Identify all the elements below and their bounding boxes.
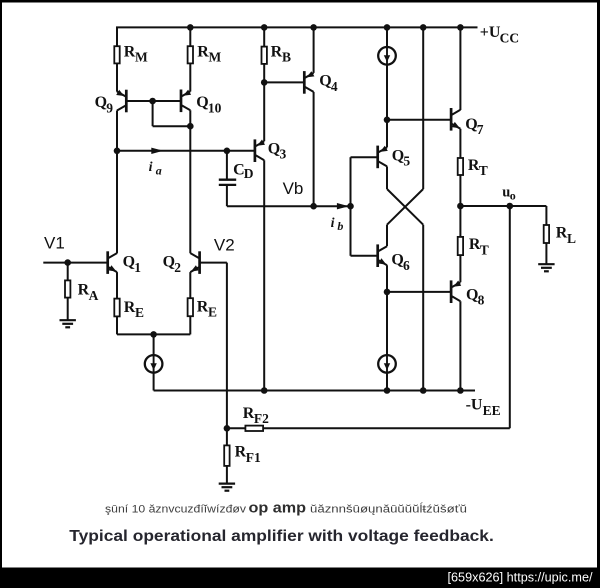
wire uo node to RT2: [459, 206, 461, 237]
wire Q1 collector up to node ia: [116, 151, 118, 254]
node uo feedback junction: [507, 203, 514, 210]
wire I3 to -UEE corner: [153, 373, 155, 391]
node current source I1 on rail: [384, 24, 391, 31]
wire Vb line to ib node: [227, 205, 351, 207]
node cross column on +UCC rail: [420, 24, 427, 31]
svg-text:R: R: [197, 298, 209, 315]
wire I1 to Q5 emitter node: [386, 64, 388, 119]
wire RF1 to ground: [226, 466, 228, 483]
svg-text:EE: EE: [483, 403, 501, 418]
svg-text:ŭăznnšūøųnăūŭŭŭĺŧźŭšøťŭ: ŭăznnšūøųnăūŭŭŭĺŧźŭšøťŭ: [310, 502, 467, 515]
wire Q4 base line: [264, 81, 303, 83]
svg-text:o: o: [510, 189, 516, 203]
ground below RL: [538, 263, 554, 265]
svg-text:Q: Q: [319, 73, 331, 90]
wire ib node down to Q6 base: [350, 206, 352, 256]
wire Q5 collector to cross top-left: [386, 166, 388, 189]
wire RM1 to Q9 emitter: [116, 64, 118, 92]
svg-text:-U: -U: [466, 397, 483, 414]
svg-text:Q: Q: [466, 286, 478, 303]
svg-text:F2: F2: [254, 411, 269, 426]
node I2 on -UEE rail: [384, 387, 391, 394]
svg-text:A: A: [89, 288, 99, 303]
wire Q1 emitter to RE1: [116, 272, 118, 299]
node Q9/Q1 collector junction: [114, 148, 121, 155]
wire V1 input line: [43, 262, 107, 264]
wire RM2 column from +UCC rail: [189, 27, 191, 46]
resistor RL (load): [544, 225, 549, 243]
svg-text:6: 6: [403, 258, 410, 273]
wire Q4 collector down to Vb node: [313, 92, 315, 206]
resistor RF2 (feedback): [245, 426, 263, 431]
wire Q3 collector down to -UEE rail: [263, 160, 265, 390]
wire CD bottom lead to Vb line: [226, 186, 228, 206]
wire CD top lead: [226, 151, 228, 179]
svg-text:R: R: [124, 299, 136, 316]
border frame right: [597, 0, 600, 568]
wire node down to Q5 emitter: [386, 120, 388, 148]
node RB top on rail: [261, 24, 268, 31]
node RF junction: [224, 425, 231, 432]
wire V2 feedback line down: [226, 263, 228, 429]
svg-text:E: E: [208, 305, 217, 320]
svg-text:CC: CC: [500, 30, 519, 45]
resistor RM (right, Q10 emitter): [188, 46, 193, 63]
svg-text:Typical operational amplifier: Typical operational amplifier with volta…: [69, 528, 494, 545]
wire RL to ground: [545, 243, 547, 264]
wire -UEE supply rail: [154, 390, 475, 392]
wire Q5 emitter node to Q7 base: [387, 119, 450, 121]
svg-text:F1: F1: [246, 450, 261, 465]
node RB bottom / Q4 base node: [261, 79, 268, 86]
node Q5 emitter / Q7 base junction: [384, 117, 391, 124]
svg-text:Q: Q: [123, 254, 135, 271]
current arrow ia: [151, 148, 163, 154]
transistor Q2 (npn input pair): [198, 251, 201, 274]
current source I3 (input pair tail): [145, 355, 163, 373]
svg-text:i: i: [149, 160, 153, 175]
svg-text:5: 5: [403, 154, 410, 169]
resistor RF1 (feedback to ground): [224, 445, 229, 466]
svg-text:V2: V2: [214, 236, 235, 255]
resistor RB (Q3 emitter load): [262, 47, 267, 64]
svg-text:10: 10: [208, 101, 222, 116]
svg-text:D: D: [244, 166, 254, 181]
svg-text:8: 8: [478, 293, 485, 308]
svg-text:R: R: [197, 43, 209, 60]
node Q4 collector Vb junction: [310, 203, 317, 210]
svg-text:Q: Q: [268, 140, 280, 157]
svg-text:Q: Q: [163, 254, 175, 271]
svg-text:b: b: [337, 219, 343, 233]
node RT1 uo junction: [457, 203, 464, 210]
wire +UCC supply rail: [116, 26, 478, 28]
wire +UCC down crossing Q7 base line: [422, 27, 424, 189]
svg-text:T: T: [480, 242, 489, 257]
transistor Q1 (npn input pair): [106, 251, 109, 274]
wire RA lead: [67, 263, 69, 281]
svg-text:R: R: [556, 225, 568, 242]
wire cross right bottom to -UEE rail: [422, 225, 424, 391]
wire RB to node B: [263, 64, 265, 82]
border frame top: [0, 0, 600, 3]
svg-text:9: 9: [106, 100, 113, 115]
svg-text:+U: +U: [480, 24, 501, 41]
border frame left: [0, 0, 2, 568]
node Q7 collector on rail: [457, 24, 464, 31]
wire uo output line: [460, 205, 546, 207]
transistor Q8 (pnp output): [450, 280, 453, 303]
svg-text:R: R: [235, 444, 247, 461]
transistor Q3 (pnp follower): [254, 139, 257, 162]
transistor Q6 (npn driver): [376, 244, 379, 267]
wire cross left bottom to Q6 collector: [386, 225, 388, 247]
svg-text:R: R: [124, 43, 136, 60]
transistor Q5 (pnp driver): [376, 146, 379, 169]
node cross column on -UEE rail: [420, 387, 427, 394]
wire Q6 emitter down to node: [386, 265, 388, 292]
svg-text:i: i: [331, 216, 335, 231]
wire Q9 collector down to node ia: [116, 111, 118, 151]
node tail junction: [150, 331, 157, 338]
svg-text:Q: Q: [465, 116, 477, 133]
wire RT2 to Q8 emitter: [459, 256, 461, 283]
node Q8 collector on -UEE rail: [457, 387, 464, 394]
wire Q9 base to Q10 base: [127, 100, 180, 102]
wire node down to current source I2: [386, 292, 388, 355]
node Q6 emitter / Q8 base junction: [384, 289, 391, 296]
wire +UCC to current source I1: [386, 27, 388, 47]
wire RF2 to output feedback line: [264, 427, 510, 429]
svg-text:Q: Q: [392, 147, 404, 164]
wire RB column from +UCC rail: [263, 27, 265, 46]
wire Q2 emitter to RE2: [189, 272, 191, 298]
wire Q8 collector down to -UEE rail: [459, 301, 461, 390]
svg-text:Q: Q: [95, 94, 107, 111]
wire cross diagonal A: [387, 189, 423, 225]
transistor Q10 (pnp current mirror, diode connected): [180, 90, 183, 113]
wire tail to current source I3: [153, 334, 155, 355]
resistor RE (left, Q1 emitter): [114, 299, 119, 317]
wire RE1 to tail join: [116, 317, 118, 335]
footer black bar: [0, 568, 600, 588]
svg-text:L: L: [567, 231, 576, 246]
current arrow ib: [337, 203, 349, 209]
svg-text:1: 1: [134, 260, 141, 275]
wire RE join line: [117, 333, 190, 335]
svg-text:op amp: op amp: [249, 500, 307, 516]
wire base tie down jog: [152, 101, 154, 126]
capacitor CD (compensation): [219, 179, 236, 181]
wire I2 to -UEE rail: [386, 373, 388, 391]
node ib junction: [347, 203, 354, 210]
current source I1 (Q5 bias): [378, 47, 396, 65]
svg-text:R: R: [243, 405, 255, 422]
ground below RF1: [219, 483, 235, 485]
transistor Q4 (pnp gain stage): [303, 71, 306, 94]
svg-text:şūní 10 ăznvcuzđíĭwízđøv: şūní 10 ăznvcuzđíĭwízđøv: [105, 503, 247, 515]
svg-text:[659x626] https://upic.me/: [659x626] https://upic.me/: [448, 571, 594, 585]
resistor RM (left, Q9 emitter): [114, 46, 119, 63]
wire RF2 left lead: [227, 427, 245, 429]
wire feedback riser to uo: [509, 206, 511, 428]
resistor RA (input): [65, 280, 70, 297]
wire Q6 emitter node to Q8 base: [387, 291, 450, 293]
resistor RT (upper): [458, 158, 463, 175]
svg-text:2: 2: [174, 260, 181, 275]
wire RF1 lead: [226, 428, 228, 445]
svg-text:Q: Q: [196, 94, 208, 111]
wire RA to ground: [67, 298, 69, 320]
wire ia line (mirror output to Q3 base): [117, 150, 254, 152]
svg-text:B: B: [282, 50, 291, 65]
node Q10 collector junction: [187, 123, 194, 130]
resistor RT (lower): [458, 237, 463, 255]
svg-text:V1: V1: [44, 233, 65, 252]
wire Q7 emitter to RT1: [459, 129, 461, 158]
wire RM2 to Q10 emitter: [189, 64, 191, 92]
transistor Q9 (pnp current mirror): [125, 90, 128, 113]
node base tie junction: [149, 98, 156, 105]
resistor RE (right, Q2 emitter): [188, 298, 193, 316]
wire ib node up to Q5 base: [350, 157, 352, 206]
node Q3 collector on -UEE rail: [261, 387, 268, 394]
wire RE2 to tail join: [189, 317, 191, 335]
wire Q10 collector down through ia crossing to Q2 collector: [189, 110, 191, 253]
current source I2 (Q6 bias): [378, 355, 396, 373]
wire RL corner down: [545, 206, 547, 225]
node CD top junction: [224, 148, 231, 155]
svg-text:7: 7: [477, 122, 484, 137]
node V1 / RA junction: [64, 259, 71, 266]
wire cross diagonal B: [387, 189, 423, 225]
svg-text:M: M: [135, 50, 148, 65]
node RM2 top on rail: [187, 24, 194, 31]
svg-text:4: 4: [331, 79, 338, 94]
wire node B down to Q3 emitter: [263, 82, 265, 141]
svg-text:M: M: [209, 50, 222, 65]
svg-text:3: 3: [280, 147, 287, 162]
svg-text:R: R: [271, 43, 283, 60]
transistor Q7 (npn output): [450, 108, 453, 131]
svg-text:T: T: [479, 163, 488, 178]
ground below RA: [60, 319, 76, 321]
svg-text:E: E: [135, 305, 144, 320]
svg-text:a: a: [156, 163, 162, 177]
svg-text:Q: Q: [391, 252, 403, 269]
wire Q2 base to V2 corner: [200, 262, 227, 264]
wire RT1 to uo node: [459, 175, 461, 206]
wire RM1 column from +UCC rail: [116, 27, 118, 46]
wire Q7 collector from +UCC rail: [459, 27, 461, 110]
svg-text:Vb: Vb: [283, 179, 304, 198]
node Q4 emitter on rail: [310, 24, 317, 31]
wire Q4 emitter from +UCC rail: [313, 27, 315, 73]
